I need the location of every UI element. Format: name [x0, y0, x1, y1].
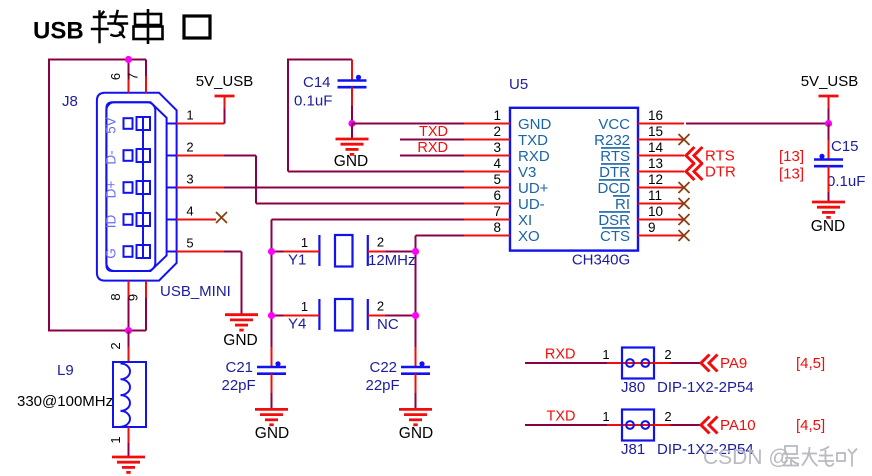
svg-text:2: 2	[377, 235, 384, 250]
U5 right pin 13 lead	[638, 171, 684, 173]
svg-text:DTR: DTR	[599, 164, 630, 181]
U5 left pin 5 lead	[464, 187, 510, 189]
svg-text:GND: GND	[399, 425, 433, 442]
svg-text:[13]: [13]	[779, 148, 804, 165]
GND label (C15)	[811, 218, 845, 235]
wire VCC net	[686, 123, 829, 125]
GND label (C21)	[255, 425, 289, 442]
svg-text:NC: NC	[377, 316, 399, 333]
svg-text:GND: GND	[255, 425, 289, 442]
cross-ref [4,5] (PA9)	[796, 355, 825, 372]
pin name XI	[518, 212, 532, 229]
GND label (C22)	[399, 425, 433, 442]
J8 pin 5 lead (G)	[177, 251, 224, 253]
svg-text:22pF: 22pF	[222, 377, 256, 394]
Y1 pin 2 lead	[368, 251, 416, 253]
connector J8 USB mini body	[97, 93, 177, 281]
crystal Y1	[319, 235, 367, 267]
pin number 2 (J80)	[664, 347, 671, 362]
capacitor C22 bottom lead	[415, 374, 417, 410]
pin number 7	[493, 204, 501, 219]
wire C14 to ground	[351, 124, 353, 140]
svg-text:G: G	[104, 248, 119, 259]
pin name RXD	[518, 148, 550, 165]
pin number 13	[648, 156, 663, 171]
crystal Y4	[319, 299, 367, 331]
C21 designator	[226, 359, 254, 376]
net label RXD (chip)	[417, 140, 448, 156]
wire XO net vertical	[415, 236, 417, 348]
svg-text:J81: J81	[621, 441, 645, 458]
wire G to GND	[224, 252, 242, 315]
GND label (C14)	[334, 153, 368, 170]
svg-text:3: 3	[186, 172, 193, 187]
svg-text:C21: C21	[226, 359, 254, 376]
wire top frame horizontal	[49, 59, 146, 61]
junction Y1 pin1	[268, 248, 275, 255]
pin name XO	[518, 228, 540, 245]
svg-text:6: 6	[493, 188, 501, 203]
pin number 2	[493, 124, 501, 139]
svg-text:13: 13	[648, 156, 663, 171]
capacitor C15 top lead	[828, 140, 830, 160]
svg-text:DCD: DCD	[598, 180, 631, 197]
pin number 5	[493, 172, 501, 187]
ground symbol (C14)	[336, 139, 369, 154]
wire V3 to chip pin4	[288, 171, 464, 173]
wire TXD to chip pin2	[400, 139, 464, 141]
pin number 3	[186, 172, 193, 187]
J8 pin 6 lead	[128, 60, 130, 93]
svg-text:22pF: 22pF	[366, 377, 400, 394]
svg-text:5: 5	[493, 172, 501, 187]
wire RXD to J80	[525, 362, 622, 364]
svg-text:GND: GND	[811, 218, 845, 235]
pin number 2 (J81)	[664, 409, 671, 424]
net label PA10	[720, 417, 756, 434]
svg-text:10: 10	[648, 204, 663, 219]
J8 pin 9 lead	[145, 281, 147, 331]
C15 value 0.1uF	[827, 173, 865, 190]
U5 left pin 6 lead	[464, 203, 510, 205]
L9 pin 1 lead	[128, 427, 130, 457]
net label TXD (chip)	[419, 124, 448, 140]
svg-text:VCC: VCC	[598, 116, 630, 133]
GND label (J8)	[223, 332, 257, 349]
svg-text:[13]: [13]	[779, 166, 804, 183]
svg-text:GND: GND	[334, 153, 368, 170]
capacitor C14 bottom lead	[351, 87, 353, 123]
svg-text:L9: L9	[57, 362, 74, 379]
Y1 designator	[288, 252, 306, 269]
svg-text:14: 14	[648, 140, 664, 155]
svg-text:GND: GND	[518, 116, 552, 133]
C21 value 22pF	[222, 377, 256, 394]
wire D+ net to UD+	[224, 187, 464, 189]
Y1 value 12MHz	[368, 252, 416, 269]
pin number 2 (Y4)	[377, 299, 384, 314]
Y4 pin 2 lead	[368, 315, 416, 317]
L9 designator	[57, 362, 74, 379]
pin name GND	[518, 116, 552, 133]
svg-text:PA10: PA10	[720, 417, 756, 434]
pin number 4	[186, 204, 193, 219]
svg-text:USB_MINI: USB_MINI	[160, 283, 231, 300]
svg-text:1: 1	[108, 436, 123, 443]
wire D- net to UD-	[224, 156, 464, 204]
svg-text:RXD: RXD	[518, 148, 550, 165]
net label RTS	[705, 148, 735, 165]
svg-text:15: 15	[648, 124, 663, 139]
pin number 2	[186, 140, 193, 155]
pin name V3	[518, 164, 536, 181]
pin number 9	[126, 294, 141, 301]
capacitor C22 top lead	[415, 347, 417, 367]
ground symbol (C15)	[812, 202, 845, 217]
harness arrow PA10	[701, 417, 718, 434]
U5 left pin 8 lead	[464, 235, 510, 237]
svg-text:XI: XI	[518, 212, 532, 229]
wire RXD to chip pin3	[400, 155, 464, 157]
svg-text:TXD: TXD	[419, 124, 448, 140]
U5 value CH340G	[572, 252, 630, 269]
Y1 pin 1 lead	[272, 251, 320, 253]
svg-text:GND: GND	[223, 332, 257, 349]
svg-text:1: 1	[602, 409, 609, 424]
no-ERC cross pin 10	[679, 214, 690, 225]
pin number 1 (J81)	[602, 409, 609, 424]
svg-text:CH340G: CH340G	[572, 252, 630, 269]
pin name RTS	[600, 148, 630, 165]
pin number 8	[108, 293, 123, 300]
capacitor C22	[401, 361, 430, 374]
U5 right pin 15 lead	[638, 139, 684, 141]
pin number 6	[493, 188, 501, 203]
U5 left pin 2 lead	[464, 139, 510, 141]
svg-text:9: 9	[126, 294, 141, 301]
pin name R232	[594, 132, 630, 149]
svg-text:2: 2	[108, 342, 123, 349]
J8 pin 4 lead (ID, no connect)	[177, 219, 216, 221]
net label 5V_USB (right)	[801, 73, 859, 90]
J80 value DIP-1X2-2P54	[657, 379, 754, 396]
pin number 9	[648, 220, 656, 235]
harness arrow RTS	[686, 147, 703, 164]
C22 designator	[370, 359, 398, 376]
J8 pin 7 lead	[145, 60, 147, 93]
svg-text:330@100MHz: 330@100MHz	[17, 393, 113, 410]
wire 5V_USB riser (right)	[828, 109, 830, 124]
junction Y4 pin1	[268, 312, 275, 319]
no-ERC cross pin 11	[679, 198, 690, 209]
svg-text:2: 2	[377, 299, 384, 314]
svg-text:11: 11	[648, 188, 662, 203]
Y4 designator	[288, 316, 306, 333]
Y4 value NC	[377, 316, 399, 333]
svg-text:C14: C14	[303, 74, 331, 91]
no-ERC cross on pin 4	[216, 212, 227, 223]
pin name DCD	[598, 180, 631, 197]
pin name TXD	[518, 132, 548, 149]
svg-text:CTS: CTS	[600, 228, 630, 245]
net label DTR	[705, 164, 736, 181]
capacitor C21 bottom lead	[271, 374, 273, 410]
svg-text:RI: RI	[615, 196, 630, 213]
pin number 11	[648, 188, 662, 203]
svg-text:5V_USB: 5V_USB	[196, 73, 254, 90]
pin number 2 (Y1)	[377, 235, 384, 250]
J8 designator	[62, 93, 78, 110]
svg-text:[4,5]: [4,5]	[796, 417, 825, 434]
pin number 10	[648, 204, 663, 219]
svg-text:RTS: RTS	[600, 148, 630, 165]
svg-text:V3: V3	[518, 164, 536, 181]
pin number 1	[186, 108, 193, 123]
svg-text:PA9: PA9	[720, 355, 747, 372]
junction Y1 pin2	[412, 248, 419, 255]
svg-text:C15: C15	[831, 138, 859, 155]
pin number 14	[648, 140, 664, 155]
pin name UD+	[518, 180, 549, 197]
Y4 pin 1 lead	[272, 315, 320, 317]
junction node bottom (pin8/frame/L9)	[125, 327, 132, 334]
pin number 2 (L9 top)	[108, 342, 123, 349]
svg-text:1: 1	[186, 108, 193, 123]
svg-text:C22: C22	[370, 359, 398, 376]
J8 internal pin labels 5V D- D+ ID G	[104, 117, 119, 259]
svg-text:D+: D+	[104, 181, 119, 199]
svg-text:1: 1	[602, 347, 609, 362]
svg-text:7: 7	[126, 73, 141, 80]
J8 pin 8 lead	[128, 281, 130, 331]
wire bottom frame horizontal	[48, 330, 146, 332]
pin name VCC	[598, 116, 630, 133]
watermark CSDN	[703, 446, 857, 469]
harness arrow DTR	[686, 163, 703, 180]
svg-text:2: 2	[493, 124, 501, 139]
cross-ref [13] (DTR)	[779, 166, 804, 183]
junction Y4 pin2	[412, 312, 419, 319]
cross-ref [13] (RTS)	[779, 148, 804, 165]
U5 left pin 4 lead	[464, 171, 510, 173]
wire J80 to PA9	[654, 362, 701, 364]
J8 pin 3 lead (D+)	[177, 187, 224, 189]
wire VCC to C15	[828, 124, 830, 141]
svg-text:5V: 5V	[104, 117, 119, 134]
wire XO to chip pin8	[416, 235, 465, 237]
junction node top (pin6 to frame)	[125, 56, 132, 63]
svg-text:8: 8	[493, 220, 501, 235]
svg-text:5V_USB: 5V_USB	[801, 73, 859, 90]
capacitor C14	[338, 75, 367, 87]
C14 value 0.1uF	[294, 93, 332, 110]
junction VCC node	[825, 120, 832, 127]
svg-text:RTS: RTS	[705, 148, 735, 165]
op-amp U5 CH340G body	[510, 108, 638, 251]
ground symbol (C22)	[399, 409, 432, 424]
pin number 6	[108, 73, 123, 80]
svg-text:TXD: TXD	[518, 132, 548, 149]
no-ERC cross pin 12	[679, 182, 690, 193]
junction node C14/GND/pin1	[348, 120, 355, 127]
ground symbol (C21)	[255, 409, 288, 424]
pin number 7	[126, 73, 141, 80]
svg-text:2: 2	[186, 140, 193, 155]
wire frame to L9	[128, 331, 130, 348]
svg-text:DIP-1X2-2P54: DIP-1X2-2P54	[657, 379, 754, 396]
wire 5V_USB riser	[224, 109, 226, 124]
U5 designator	[509, 76, 528, 93]
pin number 4	[493, 156, 501, 171]
svg-text:Y4: Y4	[288, 316, 306, 333]
USB_MINI comment	[160, 283, 231, 300]
svg-text:J80: J80	[621, 379, 645, 396]
connector J80	[622, 348, 654, 379]
pin number 15	[648, 124, 663, 139]
wire TXD to J81	[525, 424, 622, 426]
C15 designator	[831, 138, 859, 155]
inductor L9 body	[113, 362, 146, 427]
capacitor C21	[257, 361, 286, 374]
svg-text:RXD: RXD	[545, 347, 576, 363]
pin number 1	[493, 108, 501, 123]
U5 right pin 14 lead	[638, 155, 684, 157]
wire V3 loop top	[288, 59, 352, 61]
cross-ref [13] (C15 row a)	[0, 0, 1, 1]
harness arrow PA9	[701, 355, 718, 372]
wire GND net to chip pin1	[352, 123, 464, 125]
svg-text:8: 8	[108, 293, 123, 300]
C14 designator	[303, 74, 331, 91]
svg-text:3: 3	[493, 140, 501, 155]
cross-ref [4,5] (PA10)	[796, 417, 825, 434]
wire XI net vertical	[271, 220, 273, 348]
title text "USB转串口"	[33, 9, 210, 45]
J8 pin 2 lead (D-)	[177, 155, 224, 157]
pin number 1 (Y4)	[301, 299, 308, 314]
no-ERC cross pin 9	[679, 230, 690, 241]
capacitor C21 top lead	[271, 347, 273, 367]
pin number 3	[493, 140, 501, 155]
C22 value 22pF	[366, 377, 400, 394]
svg-text:1: 1	[301, 299, 308, 314]
svg-text:UD-: UD-	[518, 196, 545, 213]
L9 value 330@100MHz	[17, 393, 113, 410]
pin name CTS	[600, 228, 630, 245]
svg-text:0.1uF: 0.1uF	[827, 173, 865, 190]
svg-text:7: 7	[493, 204, 501, 219]
wire left frame vertical	[48, 59, 50, 332]
U5 left pin 3 lead	[464, 155, 510, 157]
U5 right pin 16 lead	[638, 123, 684, 125]
J8 pin 1 lead	[177, 123, 225, 125]
svg-text:XO: XO	[518, 228, 540, 245]
svg-text:12MHz: 12MHz	[368, 252, 416, 269]
pin number 1 (L9 bottom)	[108, 436, 123, 443]
svg-text:6: 6	[108, 73, 123, 80]
power symbol 5V_USB (right)	[819, 96, 839, 109]
capacitor C15 bottom lead	[828, 166, 830, 202]
svg-text:16: 16	[648, 108, 663, 123]
svg-text:DTR: DTR	[705, 164, 736, 181]
power symbol 5V_USB (left)	[215, 96, 235, 109]
svg-text:4: 4	[493, 156, 501, 171]
ground symbol (J8 shell GND)	[225, 315, 258, 330]
svg-text:UD+: UD+	[518, 180, 549, 197]
connector J81	[622, 410, 654, 441]
svg-text:4: 4	[186, 204, 193, 219]
pin name UD-	[518, 196, 545, 213]
svg-text:0.1uF: 0.1uF	[294, 93, 332, 110]
pin number 16	[648, 108, 663, 123]
svg-text:TXD: TXD	[547, 409, 576, 425]
svg-text:[4,5]: [4,5]	[796, 355, 825, 372]
U5 right pin 10 lead	[638, 219, 684, 221]
no-ERC cross pin 15	[679, 134, 690, 145]
net label PA9	[720, 355, 747, 372]
svg-text:D-: D-	[104, 150, 119, 164]
U5 left pin 7 lead	[464, 219, 510, 221]
wire V3 loop vertical	[287, 59, 289, 172]
svg-text:J8: J8	[62, 93, 78, 110]
svg-text:R232: R232	[594, 132, 630, 149]
pin number 5	[186, 236, 193, 251]
svg-text:1: 1	[493, 108, 501, 123]
pin number 12	[648, 172, 663, 187]
U5 right pin 11 lead	[638, 203, 684, 205]
pin number 1 (Y1)	[301, 235, 308, 250]
svg-text:2: 2	[664, 409, 671, 424]
pin number 8	[493, 220, 501, 235]
pin name DTR	[599, 164, 630, 181]
pin name RI	[613, 196, 630, 213]
capacitor C15	[814, 154, 843, 167]
svg-text:9: 9	[648, 220, 656, 235]
svg-text:DSR: DSR	[598, 212, 630, 229]
U5 right pin 9 lead	[638, 235, 684, 237]
J81 designator	[621, 441, 645, 458]
svg-text:U5: U5	[509, 76, 528, 93]
L9 pin 2 lead	[128, 347, 130, 362]
svg-text:Y1: Y1	[288, 252, 306, 269]
U5 left pin 1 lead	[464, 123, 510, 125]
wire XI to chip pin7	[272, 219, 465, 221]
svg-text:2: 2	[664, 347, 671, 362]
svg-text:CSDN @: CSDN @	[703, 446, 790, 469]
pin name DSR	[598, 212, 630, 229]
ground symbol (L9)	[112, 457, 145, 472]
net label 5V_USB (left)	[196, 73, 254, 90]
svg-text:RXD: RXD	[417, 140, 448, 156]
U5 right pin 12 lead	[638, 187, 684, 189]
J81 value DIP-1X2-2P54	[657, 441, 754, 458]
J80 designator	[621, 379, 645, 396]
svg-text:12: 12	[648, 172, 663, 187]
svg-text:1: 1	[301, 235, 308, 250]
net label RXD	[545, 347, 576, 363]
svg-text:USB: USB	[33, 18, 84, 45]
pin number 1 (J80)	[602, 347, 609, 362]
capacitor C14 top lead	[351, 60, 353, 81]
wire J81 to PA10	[654, 424, 701, 426]
svg-text:ID: ID	[104, 214, 119, 228]
svg-text:5: 5	[186, 236, 193, 251]
net label TXD	[547, 409, 576, 425]
